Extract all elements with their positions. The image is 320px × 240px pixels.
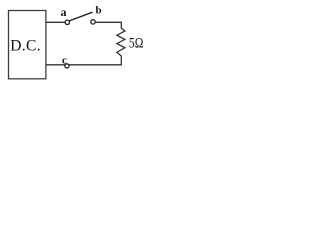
svg-text:D.C.: D.C. — [10, 37, 41, 54]
svg-text:a: a — [61, 5, 67, 19]
svg-text:5Ω: 5Ω — [129, 36, 144, 52]
svg-text:c: c — [62, 54, 67, 66]
svg-text:b: b — [96, 5, 102, 17]
